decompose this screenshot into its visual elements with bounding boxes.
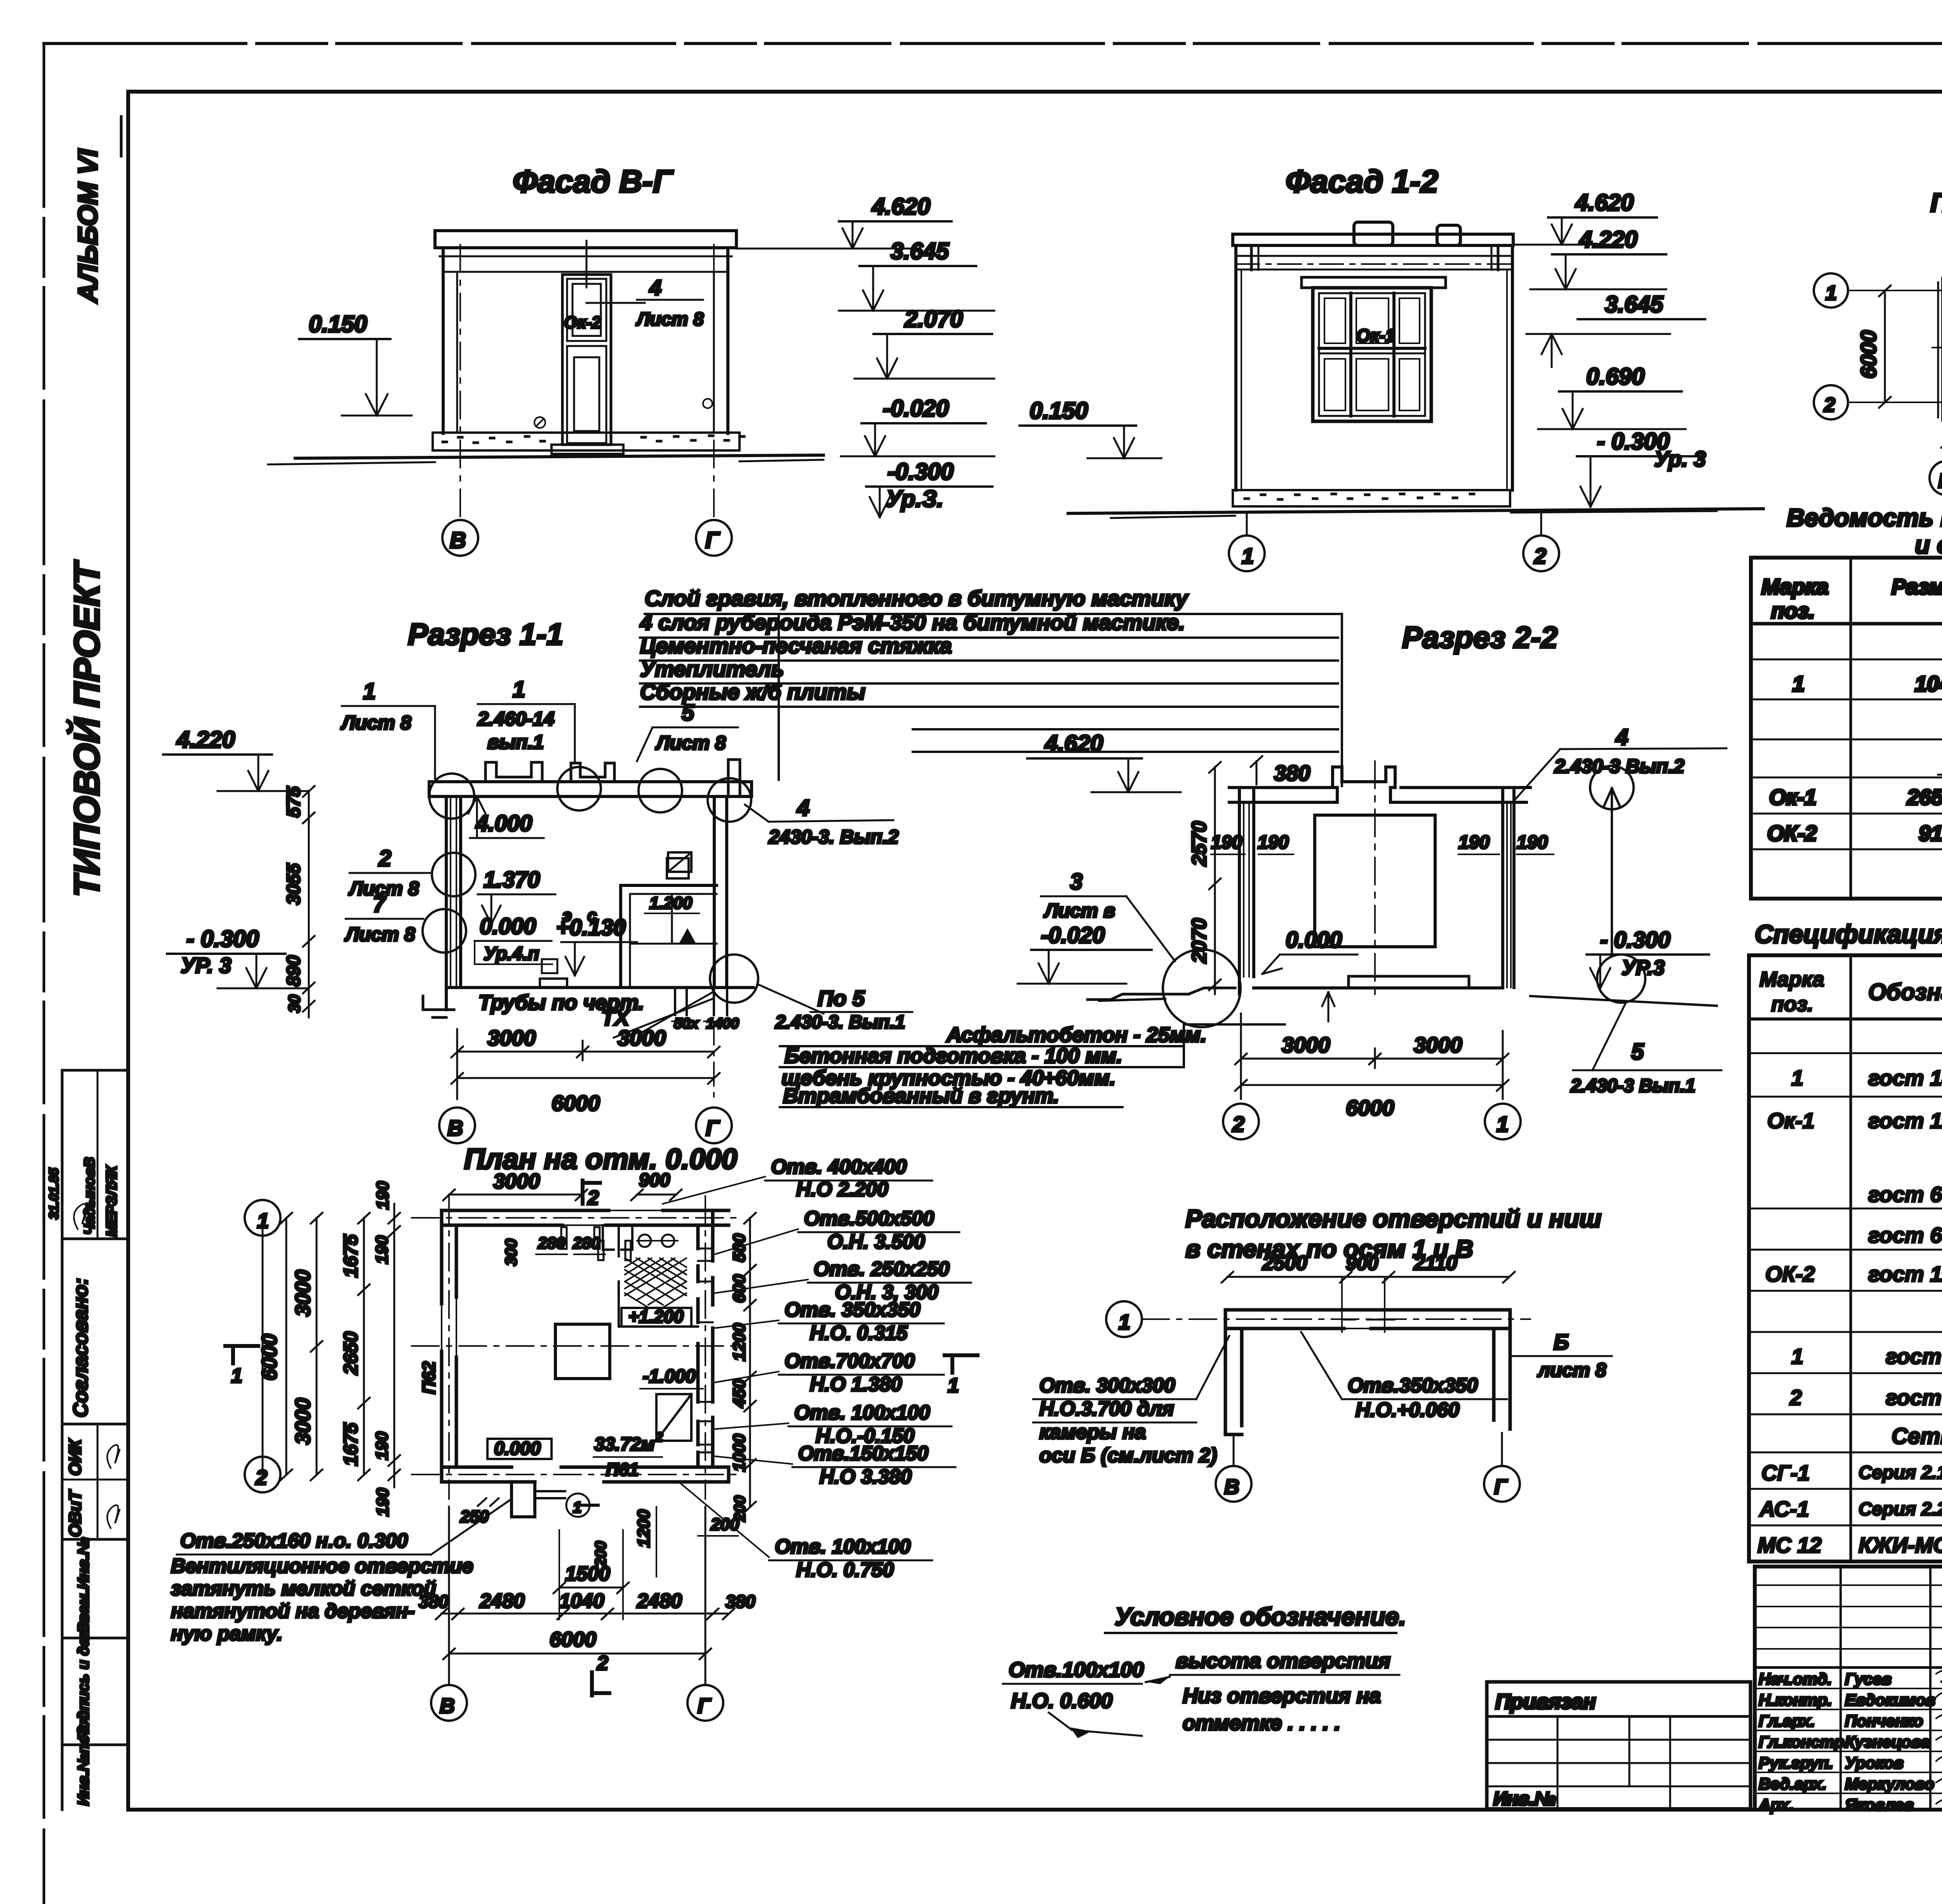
svg-text:ОВиТ: ОВиТ [66, 1489, 85, 1537]
bottom dims row2 6000 [449, 1653, 705, 1655]
svg-text:КЖИ-МС10: КЖИ-МС10 [1858, 1533, 1942, 1557]
svg-text:Г: Г [1494, 1475, 1508, 1499]
svg-text:Низ отверстия на: Низ отверстия на [1183, 1684, 1381, 1708]
foundation left [423, 996, 454, 1017]
svg-text:поз.: поз. [1771, 598, 1815, 623]
bottom chamber projection [512, 1482, 535, 1517]
svg-text:4.620: 4.620 [872, 193, 930, 219]
svg-text:0.000: 0.000 [494, 1438, 541, 1459]
svg-text:1: 1 [1119, 1311, 1130, 1334]
svg-text:3000: 3000 [1282, 1033, 1330, 1057]
pipes under floor [674, 988, 676, 1015]
svg-text:Серия 2.260-3с: Серия 2.260-3с [1858, 1499, 1942, 1520]
right wall [713, 796, 716, 988]
svg-text:ОК-2: ОК-2 [1767, 821, 1817, 845]
axis circles left [245, 1200, 280, 1236]
svg-text:Отв.350х350: Отв.350х350 [1348, 1374, 1478, 1397]
svg-text:4.620: 4.620 [1575, 190, 1634, 216]
axis circles bottom [431, 1685, 467, 1721]
left dim chain [308, 791, 310, 1017]
svg-text:ЧадыновВ: ЧадыновВ [82, 1157, 98, 1235]
svg-text:Серия 2.130-Бс: Серия 2.130-Бс [1858, 1462, 1942, 1483]
svg-text:1.370: 1.370 [484, 867, 540, 892]
svg-text:Гусев: Гусев [1845, 1670, 1892, 1688]
svg-text:Н.О.+0.060: Н.О.+0.060 [1356, 1399, 1459, 1421]
svg-text:В: В [450, 528, 466, 553]
axis circles [439, 1108, 475, 1143]
signatures [1936, 1669, 1942, 1814]
axis dash-dot [412, 1217, 738, 1219]
svg-text:1200: 1200 [634, 1509, 653, 1548]
svg-text:1: 1 [257, 1209, 269, 1233]
interior partition right room [619, 1225, 698, 1327]
svg-text:Гл.арх.: Гл.арх. [1759, 1712, 1815, 1730]
dash-dot through band [1142, 1318, 1530, 1320]
svg-text:Понченко: Понченко [1845, 1712, 1923, 1730]
left wall drop [1225, 1310, 1242, 1435]
svg-text:190: 190 [1211, 832, 1242, 853]
small diameter marks [534, 417, 545, 428]
section cut 2 bottom [592, 1672, 609, 1695]
svg-text:2500: 2500 [1262, 1252, 1307, 1275]
svg-text:поз.: поз. [1771, 993, 1813, 1016]
svg-text:Цементно-песчаная стяжка: Цементно-песчаная стяжка [640, 633, 952, 658]
svg-text:Н.контр.: Н.контр. [1759, 1691, 1832, 1709]
svg-text:3: 3 [1070, 869, 1082, 894]
svg-text:Рук.груп.: Рук.груп. [1759, 1754, 1833, 1772]
svg-text:380: 380 [1274, 761, 1310, 785]
svg-text:гост 6785-80: гост 6785-80 [1868, 1223, 1942, 1247]
axis circles [1223, 1104, 1259, 1139]
right wall drop [1494, 1310, 1510, 1429]
svg-text:Арх.: Арх. [1758, 1796, 1794, 1814]
svg-text:План кровли: План кровли [1930, 188, 1942, 217]
svg-text:Ок-1: Ок-1 [1356, 325, 1395, 346]
svg-text:3.645: 3.645 [1605, 291, 1664, 317]
roof slab [435, 231, 736, 248]
tank [1315, 815, 1435, 947]
svg-text:Ур.З.: Ур.З. [886, 486, 943, 512]
svg-text:31.01.85: 31.01.85 [47, 1168, 61, 1219]
svg-text:Лист 8: Лист 8 [655, 732, 726, 754]
svg-text:2: 2 [1534, 544, 1546, 568]
0.000 box [487, 1439, 552, 1459]
axis circle 1 [1229, 536, 1265, 571]
svg-text:Инв.№подл.: Инв.№подл. [75, 1711, 92, 1806]
svg-text:СГ-1: СГ-1 [1761, 1461, 1810, 1485]
ground lines [1099, 999, 1165, 1001]
svg-text:Н.О 3.380: Н.О 3.380 [820, 1466, 912, 1488]
svg-text:3000: 3000 [1414, 1033, 1462, 1057]
svg-text:1: 1 [513, 677, 525, 702]
svg-text:В: В [440, 1694, 455, 1718]
svg-text:гост 948-76: гост 948-76 [1886, 1344, 1942, 1368]
svg-text:УР.3: УР.3 [1622, 956, 1665, 979]
svg-text:2430-3. Вып.2: 2430-3. Вып.2 [768, 826, 899, 848]
svg-text:Спецификация элементов выполне: Спецификация элементов выполнения проемо… [1755, 920, 1942, 948]
small floor square [542, 959, 557, 973]
svg-text:3055: 3055 [284, 863, 304, 905]
bottom dims row1 [442, 1613, 729, 1615]
svg-text:Гл.констр.: Гл.констр. [1759, 1733, 1849, 1751]
svg-text:лист 8: лист 8 [1537, 1359, 1606, 1381]
svg-text:1: 1 [1825, 282, 1837, 304]
svg-text:2: 2 [1789, 1385, 1802, 1410]
interior stand [621, 884, 717, 887]
svg-text:2: 2 [597, 1652, 608, 1674]
dim line above [1227, 1276, 1509, 1278]
svg-text:3000: 3000 [291, 1270, 315, 1316]
window OK-1 [1313, 288, 1431, 421]
svg-text:Лист 8: Лист 8 [341, 712, 411, 734]
window lintel board [1302, 277, 1446, 288]
svg-text:Трубы по черт.: Трубы по черт. [479, 991, 644, 1014]
svg-text:и окон: и окон [1915, 531, 1942, 559]
svg-text:МС 12: МС 12 [1758, 1533, 1822, 1557]
axis lines [459, 245, 461, 520]
svg-text:6000: 6000 [258, 1334, 281, 1381]
svg-text:890: 890 [284, 955, 304, 986]
svg-text:50х: 50х [674, 1015, 699, 1032]
top band with sheet number 8 [128, 43, 1942, 92]
roof slab [1233, 234, 1513, 245]
svg-text:По 5: По 5 [818, 986, 865, 1010]
+1.200 box [621, 1308, 691, 1327]
svg-text:Г: Г [705, 528, 720, 553]
svg-text:-1.000: -1.000 [643, 1366, 696, 1387]
svg-text:2: 2 [255, 1466, 267, 1489]
svg-text:П61: П61 [606, 1459, 639, 1480]
svg-text:5: 5 [1631, 1039, 1644, 1064]
svg-text:6000: 6000 [552, 1091, 600, 1115]
svg-text:1: 1 [1791, 1344, 1803, 1368]
svg-text:Согласовано:: Согласовано: [70, 1278, 92, 1417]
svg-text:2570: 2570 [1188, 821, 1211, 866]
svg-text:2: 2 [587, 1187, 599, 1209]
entry step [552, 445, 623, 454]
svg-text:450: 450 [730, 1379, 749, 1408]
svg-text:Разрез 1-1: Разрез 1-1 [408, 617, 563, 651]
svg-text:190: 190 [1458, 832, 1490, 853]
wall detail balloons [432, 853, 475, 896]
roof vents [1354, 222, 1393, 245]
svg-text:900: 900 [639, 1170, 670, 1191]
svg-text:2.430-3 Вып.1: 2.430-3 Вып.1 [1570, 1076, 1695, 1096]
svg-text:2: 2 [1232, 1112, 1244, 1136]
right vertical dim chain [749, 1218, 751, 1507]
svg-text:Размер проема: Размер проема [1892, 574, 1942, 599]
svg-text:затянуть мелкой сеткой: затянуть мелкой сеткой [171, 1577, 436, 1600]
ground line [1068, 509, 1763, 513]
walls: right with niches [698, 1210, 713, 1467]
svg-text:2480: 2480 [637, 1590, 682, 1612]
svg-text:ТИПОВОЙ ПРОЕКТ: ТИПОВОЙ ПРОЕКТ [66, 560, 107, 897]
svg-text:2650 х 3055: 2650 х 3055 [1907, 785, 1942, 809]
svg-text:Н.О. 0.315: Н.О. 0.315 [810, 1322, 908, 1344]
svg-text:Инв.№: Инв.№ [1493, 1789, 1556, 1809]
vertical 6000 dim [1884, 290, 1886, 402]
section cut 1 left [225, 1346, 258, 1363]
axis circles [1814, 273, 1848, 308]
svg-text:3000: 3000 [618, 1026, 666, 1050]
svg-text:-0.020: -0.020 [1041, 923, 1105, 948]
svg-text:Отв. 300х300: Отв. 300х300 [1039, 1374, 1175, 1397]
floor [446, 986, 753, 989]
svg-text:4: 4 [797, 795, 809, 821]
svg-text:2650: 2650 [340, 1332, 362, 1375]
svg-text:Привязан: Привязан [1495, 1690, 1596, 1713]
svg-text:Марка: Марка [1759, 968, 1824, 991]
svg-text:ную рамку.: ную рамку. [171, 1622, 282, 1645]
svg-text:1040 х 2070: 1040 х 2070 [1915, 671, 1942, 696]
upper empty rows [1755, 1584, 1942, 1586]
svg-text:2110: 2110 [1413, 1252, 1457, 1275]
left margin stamp table [47, 1070, 128, 1810]
arrow up through right wall [1604, 788, 1620, 955]
svg-text:В: В [447, 1116, 463, 1140]
svg-text:190: 190 [373, 1488, 392, 1516]
walls: top [442, 1210, 729, 1225]
plinth speckled band [433, 433, 740, 450]
svg-text:отметке . . . . .: отметке . . . . . [1183, 1711, 1340, 1735]
svg-text:190: 190 [373, 1181, 392, 1210]
svg-text:Н.О 2.200: Н.О 2.200 [796, 1178, 888, 1201]
svg-text:Нач.отд.: Нач.отд. [1759, 1670, 1832, 1688]
svg-text:4.000: 4.000 [475, 811, 532, 836]
door+window assembly [562, 275, 611, 445]
svg-text:33.72м: 33.72м [594, 1434, 655, 1455]
svg-text:4: 4 [1615, 725, 1628, 750]
svg-text:высота отверстия: высота отверстия [1176, 1649, 1390, 1673]
svg-text:АЛЬБОМ VI: АЛЬБОМ VI [73, 148, 103, 304]
svg-text:Разрез 2-2: Разрез 2-2 [1402, 620, 1557, 654]
right wall [1501, 788, 1504, 988]
svg-text:2.460-14: 2.460-14 [477, 708, 554, 730]
svg-text:Ок-2: Ок-2 [564, 313, 601, 332]
svg-text:оси Б (см.лист 2): оси Б (см.лист 2) [1039, 1444, 1217, 1467]
svg-text:Втрамбованный в грунт.: Втрамбованный в грунт. [783, 1084, 1059, 1108]
svg-text:1: 1 [573, 1499, 581, 1516]
svg-text:Ок-1: Ок-1 [1769, 785, 1817, 809]
svg-text:-0.020: -0.020 [883, 395, 949, 421]
svg-text:Кузнецова: Кузнецова [1845, 1733, 1930, 1751]
svg-text:6000: 6000 [1856, 330, 1881, 379]
svg-text:гост 6785-80: гост 6785-80 [1868, 1182, 1942, 1207]
svg-text:4.220: 4.220 [176, 727, 235, 753]
center column [555, 1324, 610, 1379]
axis lines [1246, 515, 1248, 536]
svg-text:2480: 2480 [479, 1590, 525, 1612]
svg-text:190: 190 [1517, 832, 1548, 853]
svg-text:190: 190 [372, 1431, 392, 1460]
svg-text:Расположение отверстий и ниш: Расположение отверстий и ниш [1185, 1205, 1601, 1233]
svg-text:Лист 8: Лист 8 [636, 309, 704, 330]
walls [442, 248, 445, 433]
1500 dim [559, 1587, 623, 1589]
svg-text:200: 200 [710, 1515, 740, 1534]
walls: left [442, 1210, 456, 1482]
svg-text:Лист 8: Лист 8 [345, 923, 415, 945]
svg-text:1: 1 [231, 1365, 242, 1387]
small roof square right [668, 852, 691, 872]
svg-text:натянутой на деревян-: натянутой на деревян- [171, 1600, 415, 1622]
svg-text:2.070: 2.070 [904, 306, 963, 332]
roof upstands [486, 762, 542, 782]
svg-text:гост 14624-84: гост 14624-84 [1868, 1066, 1942, 1090]
bottom dims [456, 1029, 458, 1099]
svg-text:1000: 1000 [730, 1434, 749, 1472]
svg-text:1: 1 [363, 679, 376, 704]
svg-text:Уроков: Уроков [1845, 1754, 1904, 1772]
svg-text:Отв.100х100: Отв.100х100 [1009, 1658, 1144, 1681]
svg-text:гост 948-76: гост 948-76 [1886, 1385, 1942, 1410]
svg-text:2: 2 [1824, 394, 1835, 416]
svg-text:ОК-2: ОК-2 [1765, 1262, 1815, 1286]
svg-text:4 слоя рубероида РэМ-350 на би: 4 слоя рубероида РэМ-350 на битумной мас… [640, 610, 1185, 635]
wall band [1225, 1310, 1510, 1328]
svg-text:7: 7 [373, 892, 386, 917]
svg-text:300: 300 [502, 1239, 520, 1266]
svg-text:910 х 1510: 910 х 1510 [1919, 821, 1942, 845]
svg-text:6000: 6000 [550, 1628, 596, 1651]
svg-text:Фасад 1-2: Фасад 1-2 [1286, 164, 1438, 199]
svg-text:1.200: 1.200 [649, 894, 693, 913]
left wall [445, 796, 448, 1010]
section cut 2 top [583, 1181, 600, 1204]
svg-text:МЕРЗЛЯК: МЕРЗЛЯК [104, 1165, 120, 1237]
svg-text:Отв. 250х250: Отв. 250х250 [814, 1258, 950, 1280]
svg-text:Отв.500х500: Отв.500х500 [804, 1207, 934, 1230]
svg-text:ОИК: ОИК [66, 1438, 85, 1476]
roof slab with curb [1229, 767, 1526, 802]
svg-text:-0.300: -0.300 [887, 459, 954, 485]
svg-text:Меркулово: Меркулово [1845, 1775, 1934, 1793]
svg-text:4.620: 4.620 [1044, 730, 1103, 756]
svg-text:О.Н. 3.500: О.Н. 3.500 [827, 1231, 925, 1253]
svg-text:0.150: 0.150 [1030, 398, 1088, 424]
svg-text:камеры на: камеры на [1039, 1421, 1146, 1443]
svg-text:0.000: 0.000 [1286, 927, 1342, 953]
right callout labels [663, 1156, 971, 1581]
svg-text:1675: 1675 [340, 1234, 362, 1278]
shaft circles in top right room [639, 1235, 651, 1247]
staff names [1758, 1670, 1935, 1814]
svg-text:Условное обозначение.: Условное обозначение. [1115, 1603, 1406, 1631]
floor with pad [1254, 986, 1503, 989]
ladder lines near hatch [603, 1225, 632, 1250]
svg-text:4.220: 4.220 [1579, 226, 1637, 252]
section cut 1 bottom inside [575, 1504, 598, 1507]
svg-text:вып.1: вып.1 [487, 731, 544, 753]
detail balloons on roof [429, 774, 474, 819]
svg-text:Отв.700х700: Отв.700х700 [785, 1350, 915, 1372]
svg-text:УР. 3: УР. 3 [181, 953, 231, 977]
2570 2070 dims [1214, 767, 1216, 994]
svg-text:2.430-3 Вып.2: 2.430-3 Вып.2 [1554, 755, 1684, 777]
left drain / balloon [1088, 994, 1189, 1000]
plinth speckled band [1233, 490, 1510, 506]
callout 4 / List 8 [586, 241, 588, 287]
axis circle 2 [1523, 536, 1559, 571]
svg-text:В: В [1938, 470, 1942, 492]
svg-text:1400: 1400 [706, 1015, 739, 1032]
svg-text:Н.О.3.700 для: Н.О.3.700 для [1039, 1398, 1174, 1420]
svg-text:Бетонная подготовка - 100 мм.: Бетонная подготовка - 100 мм. [785, 1044, 1122, 1068]
svg-text:3000: 3000 [291, 1398, 315, 1445]
svg-text:Н.О 1.380: Н.О 1.380 [810, 1373, 902, 1396]
svg-text:Б: Б [1554, 1330, 1569, 1354]
top dims [449, 1194, 581, 1196]
svg-text:1200: 1200 [730, 1323, 749, 1361]
svg-text:Ур.4.п: Ур.4.п [484, 944, 539, 964]
svg-text:П62: П62 [419, 1361, 439, 1394]
svg-text:Евдокимов: Евдокимов [1845, 1691, 1935, 1709]
svg-text:Отв. 100х100: Отв. 100х100 [794, 1401, 930, 1424]
svg-text:- 0.300: - 0.300 [186, 926, 259, 952]
axis circle V [442, 520, 478, 556]
svg-text:Отв. 400х400: Отв. 400х400 [771, 1156, 907, 1178]
svg-text:1: 1 [1497, 1112, 1509, 1136]
svg-text:Сборные ж/б плиты: Сборные ж/б плиты [640, 680, 865, 704]
svg-text:Г: Г [706, 1116, 720, 1140]
svg-text:1: 1 [1792, 671, 1805, 696]
svg-text:с: с [587, 906, 597, 925]
svg-text:1: 1 [1791, 1066, 1803, 1090]
svg-text:3.645: 3.645 [891, 238, 950, 264]
svg-text:Н.О. 0.750: Н.О. 0.750 [796, 1559, 894, 1581]
svg-text:В: В [1224, 1475, 1239, 1499]
svg-text:6000: 6000 [1346, 1095, 1394, 1120]
svg-text:Яковлев: Яковлев [1845, 1796, 1914, 1814]
svg-text:3000: 3000 [487, 1026, 536, 1050]
svg-text:5: 5 [682, 700, 694, 725]
svg-text:30: 30 [285, 995, 303, 1013]
svg-text:0.000: 0.000 [480, 914, 536, 939]
svg-text:190: 190 [1258, 832, 1289, 853]
svg-text:Слой гравия, втопленного в бит: Слой гравия, втопленного в битумную маст… [645, 586, 1189, 610]
svg-text:500: 500 [730, 1233, 749, 1262]
svg-text:0.690: 0.690 [1586, 363, 1644, 389]
left wall [1238, 788, 1241, 994]
svg-text:575: 575 [284, 786, 304, 817]
svg-text:1: 1 [948, 1374, 959, 1397]
svg-text:АС-1: АС-1 [1759, 1497, 1809, 1521]
svg-text:2070: 2070 [1188, 918, 1211, 963]
svg-text:2: 2 [378, 846, 391, 871]
svg-text:900: 900 [1346, 1252, 1378, 1274]
svg-text:1040: 1040 [559, 1590, 604, 1612]
asphalt notes [780, 1023, 1285, 1108]
svg-text:Марка: Марка [1761, 574, 1829, 599]
ground line [295, 455, 823, 458]
svg-text:Обозначение: Обозначение [1868, 979, 1942, 1005]
left dim chains [262, 1218, 264, 1475]
svg-text:190: 190 [372, 1235, 392, 1264]
svg-text:Фасад В-Г: Фасад В-Г [513, 164, 674, 199]
right balloons [1590, 766, 1634, 809]
bottom dims [1240, 1014, 1242, 1099]
svg-text:200: 200 [592, 1541, 609, 1567]
bottom-right balloon [710, 955, 758, 1003]
svg-text:0.150: 0.150 [309, 311, 367, 337]
svg-text:3000: 3000 [493, 1170, 540, 1193]
svg-text:Отв.250х160 н.о. 0.300: Отв.250х160 н.о. 0.300 [180, 1530, 408, 1552]
svg-text:1: 1 [1242, 544, 1254, 568]
svg-text:Вентиляционное отверстие: Вентиляционное отверстие [171, 1555, 473, 1577]
walls [1234, 245, 1237, 490]
svg-text:Г: Г [698, 1694, 712, 1718]
left margin: album label [73, 117, 121, 304]
